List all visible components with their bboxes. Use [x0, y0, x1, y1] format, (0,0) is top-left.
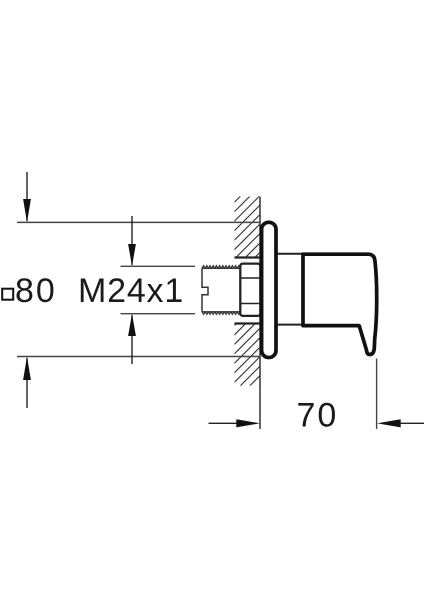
- svg-text:M24x1: M24x1: [78, 272, 184, 310]
- svg-text:80: 80: [15, 272, 57, 310]
- svg-text:70: 70: [297, 396, 339, 434]
